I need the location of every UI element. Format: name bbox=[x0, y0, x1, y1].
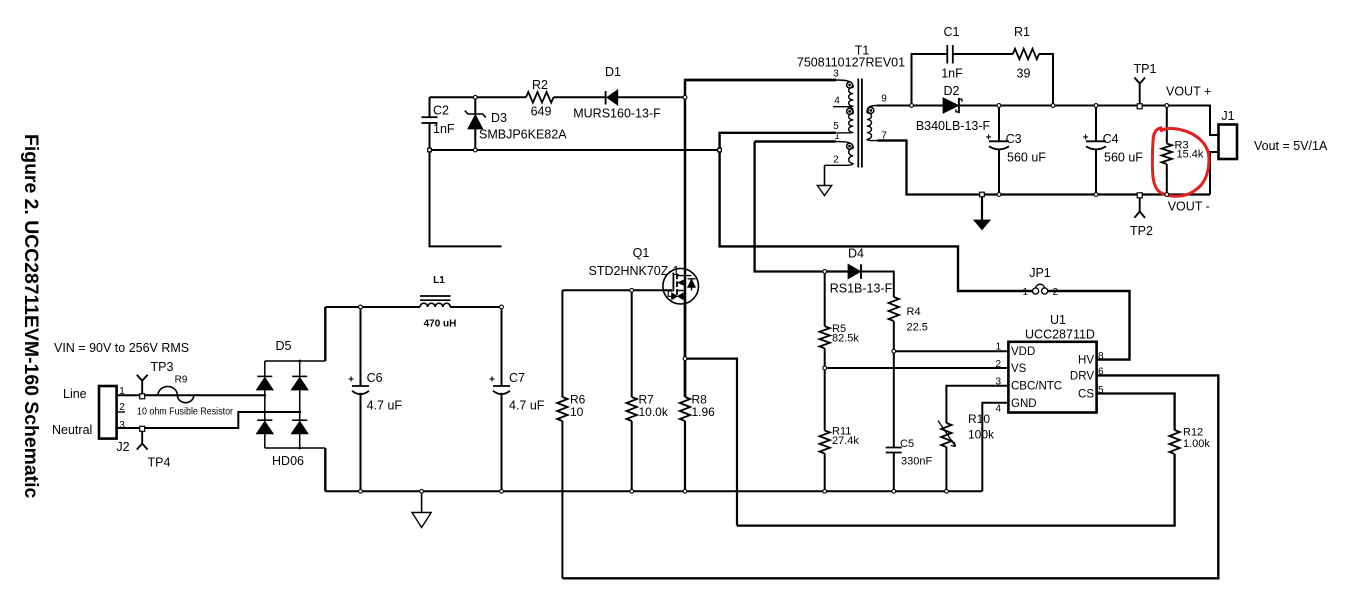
junction D4 R5 bbox=[823, 270, 827, 274]
svg-text:JP1: JP1 bbox=[1029, 266, 1051, 280]
resistor R12 bbox=[1169, 430, 1179, 454]
wire bus link y150 bbox=[430, 149, 720, 151]
svg-text:4.7 uF: 4.7 uF bbox=[509, 399, 545, 413]
zener diode D3 bbox=[474, 97, 476, 114]
svg-text:R1: R1 bbox=[1014, 25, 1030, 39]
svg-text:TP2: TP2 bbox=[1130, 224, 1153, 238]
svg-text:4.7 uF: 4.7 uF bbox=[367, 399, 403, 413]
junction C3 top bbox=[997, 104, 1001, 108]
test point TP2 bbox=[1134, 195, 1145, 218]
wire pin9 node to C1 bbox=[912, 54, 948, 106]
wire GND pin bbox=[982, 403, 1008, 492]
bridge diode lower-right bbox=[291, 421, 308, 434]
svg-text:J1: J1 bbox=[1221, 109, 1234, 123]
svg-text:J2: J2 bbox=[116, 440, 129, 454]
svg-text:Neutral: Neutral bbox=[52, 423, 92, 437]
svg-text:TP3: TP3 bbox=[151, 360, 174, 374]
resistor R10 variable bbox=[941, 423, 951, 447]
T1 pin2 ground bbox=[824, 165, 826, 185]
svg-text:D3: D3 bbox=[491, 111, 507, 125]
wire VS bbox=[825, 367, 1009, 369]
svg-text:C7: C7 bbox=[509, 371, 525, 385]
capacitor C5 bbox=[886, 447, 902, 449]
svg-text:22.5: 22.5 bbox=[907, 322, 928, 334]
svg-text:VDD: VDD bbox=[1011, 346, 1035, 358]
svg-text:D1: D1 bbox=[605, 65, 621, 79]
svg-text:1: 1 bbox=[1022, 287, 1028, 298]
junction rail C6 bbox=[359, 489, 363, 493]
junction rail R10 bbox=[945, 489, 949, 493]
svg-text:+: + bbox=[1083, 133, 1089, 144]
svg-text:U1: U1 bbox=[1050, 313, 1066, 327]
resistor R8 bbox=[680, 397, 690, 421]
bridge diode lower-left bbox=[256, 421, 273, 434]
T1 pin3 stub bbox=[685, 79, 836, 82]
wire JP1 to HV bbox=[1048, 291, 1130, 360]
fusible resistor R9 bbox=[146, 387, 200, 403]
bridge diode upper-left bbox=[256, 377, 273, 390]
svg-text:Vout = 5V/1A: Vout = 5V/1A bbox=[1254, 139, 1328, 153]
ground arrow secondary bbox=[981, 195, 983, 221]
junction VDD R4 bbox=[892, 349, 896, 353]
junction bus link end bbox=[718, 148, 722, 152]
svg-text:39: 39 bbox=[1017, 67, 1031, 81]
svg-text:4: 4 bbox=[834, 96, 840, 107]
svg-text:+: + bbox=[489, 375, 495, 386]
svg-text:2: 2 bbox=[833, 155, 839, 166]
junction C1 left bbox=[910, 104, 914, 108]
T1 winding 3-4 bbox=[836, 80, 853, 87]
ground rail bbox=[325, 490, 982, 492]
mosfet Q1 body bbox=[663, 268, 699, 304]
svg-text:+: + bbox=[348, 375, 354, 386]
svg-text:TP1: TP1 bbox=[1134, 62, 1157, 76]
wire L1 to C7 node bbox=[450, 306, 502, 308]
svg-text:R10: R10 bbox=[968, 412, 990, 426]
wire DRV loop bbox=[562, 375, 1218, 578]
IC U1 box bbox=[1008, 342, 1096, 413]
svg-text:RS1B-13-F: RS1B-13-F bbox=[830, 282, 893, 296]
svg-text:L1: L1 bbox=[433, 275, 445, 286]
svg-text:27.4k: 27.4k bbox=[832, 435, 859, 447]
svg-text:2: 2 bbox=[1053, 287, 1059, 298]
bridge diode upper-right bbox=[291, 377, 308, 390]
svg-text:VOUT +: VOUT + bbox=[1166, 85, 1211, 99]
diode D4 bbox=[848, 264, 861, 279]
svg-text:D4: D4 bbox=[848, 247, 864, 261]
diode D2 bbox=[943, 98, 959, 113]
svg-text:GND: GND bbox=[1011, 398, 1037, 410]
svg-text:649: 649 bbox=[531, 105, 552, 119]
T1 winding 1-2 bbox=[836, 142, 854, 149]
wire VOUT+ rail bbox=[959, 106, 1219, 136]
svg-text:10.0k: 10.0k bbox=[639, 405, 669, 419]
svg-text:330nF: 330nF bbox=[901, 456, 932, 468]
connector J2 bbox=[99, 386, 117, 439]
wire drain vertical with pin3 corner bbox=[685, 80, 836, 397]
svg-text:R12: R12 bbox=[1183, 427, 1203, 439]
wire R12 to source sense bbox=[737, 454, 1175, 526]
inductor L1 bbox=[420, 296, 451, 300]
svg-text:D5: D5 bbox=[276, 339, 292, 353]
junction D3 bottom bbox=[473, 148, 477, 152]
svg-text:C6: C6 bbox=[367, 371, 383, 385]
svg-text:1nF: 1nF bbox=[941, 67, 963, 81]
resistor R2 bbox=[526, 92, 554, 103]
junction D3 top bbox=[473, 95, 477, 99]
test point TP1 bbox=[1134, 78, 1145, 106]
connector J1 bbox=[1219, 125, 1238, 160]
resistor R7 bbox=[631, 290, 633, 397]
wire pin1 to D4 bbox=[755, 142, 848, 272]
svg-text:4: 4 bbox=[995, 404, 1001, 415]
svg-text:470 uH: 470 uH bbox=[424, 319, 457, 330]
wire gate bbox=[562, 289, 672, 291]
svg-text:7508110127REV01: 7508110127REV01 bbox=[797, 55, 905, 69]
svg-text:B340LB-13-F: B340LB-13-F bbox=[916, 119, 991, 133]
junction C6 top bbox=[359, 305, 363, 309]
wire bridge minus output bbox=[324, 448, 326, 491]
svg-text:82.5k: 82.5k bbox=[832, 333, 859, 345]
svg-text:C4: C4 bbox=[1103, 132, 1119, 146]
resistor R1 bbox=[1013, 49, 1039, 60]
svg-text:C2: C2 bbox=[433, 104, 449, 118]
capacitor C6 bbox=[360, 307, 362, 386]
svg-text:D2: D2 bbox=[944, 84, 960, 98]
svg-text:10 ohm Fusible Resistor: 10 ohm Fusible Resistor bbox=[137, 407, 234, 418]
T1 winding 4-5 bbox=[847, 108, 853, 114]
svg-text:VIN = 90V to 256V RMS: VIN = 90V to 256V RMS bbox=[54, 341, 189, 355]
resistor R5 bbox=[824, 272, 826, 327]
svg-text:HD06: HD06 bbox=[272, 454, 304, 468]
svg-text:R4: R4 bbox=[907, 306, 921, 318]
ground symbol near C6 bbox=[421, 491, 423, 512]
junction rail R8 bbox=[683, 489, 687, 493]
wire bus to L1 bbox=[325, 306, 420, 308]
svg-text:UCC28711D: UCC28711D bbox=[1025, 328, 1095, 342]
red marker circle around R3 bbox=[1152, 128, 1209, 196]
svg-text:TP4: TP4 bbox=[148, 456, 171, 470]
resistor R11 bbox=[824, 368, 826, 431]
svg-text:R2: R2 bbox=[532, 78, 548, 92]
junction source sense bbox=[683, 357, 687, 361]
svg-text:3: 3 bbox=[833, 69, 839, 80]
test point TP3 bbox=[137, 375, 148, 395]
svg-text:Figure 2. UCC28711EVM-160 Sche: Figure 2. UCC28711EVM-160 Schematic bbox=[20, 134, 42, 498]
wire R2 to D1 bbox=[554, 96, 606, 98]
resistor R3 bbox=[1166, 106, 1168, 144]
svg-text:VS: VS bbox=[1011, 363, 1027, 375]
T1 secondary winding 9-7 bbox=[877, 104, 911, 106]
jumper JP1 bbox=[1033, 288, 1039, 294]
svg-text:C3: C3 bbox=[1006, 132, 1022, 146]
svg-text:C1: C1 bbox=[944, 25, 960, 39]
wire pin9 to D2 bbox=[877, 105, 944, 107]
junction drain node bbox=[683, 95, 687, 99]
svg-text:Q1: Q1 bbox=[633, 246, 650, 260]
svg-text:560 uF: 560 uF bbox=[1007, 151, 1046, 165]
junction C4 top bbox=[1094, 104, 1098, 108]
svg-text:DRV: DRV bbox=[1070, 371, 1094, 383]
junction rail C5 bbox=[892, 489, 896, 493]
junction R3 bottom bbox=[1165, 193, 1169, 197]
svg-text:1.96: 1.96 bbox=[692, 405, 716, 419]
svg-text:HV: HV bbox=[1078, 355, 1094, 367]
T1 pin2 stub bbox=[825, 164, 846, 166]
wire VOUT- rail bbox=[878, 141, 1211, 195]
wire pin5 to JP1 bbox=[720, 133, 1033, 291]
junction rail C7 bbox=[500, 489, 504, 493]
svg-text:3: 3 bbox=[119, 420, 125, 431]
wire source sense tap bbox=[685, 359, 737, 526]
capacitor C4 bbox=[1095, 106, 1097, 142]
junction rail R11 bbox=[823, 489, 827, 493]
svg-text:Line: Line bbox=[63, 387, 87, 401]
svg-text:MURS160-13-F: MURS160-13-F bbox=[573, 107, 661, 121]
test point TP4 bbox=[137, 428, 148, 450]
wire clamp left vertical bbox=[430, 150, 502, 246]
junction VS R5 bbox=[823, 366, 827, 370]
wire D4 to R4 bbox=[861, 272, 894, 298]
svg-text:STD2HNK70Z-1: STD2HNK70Z-1 bbox=[589, 264, 680, 278]
wire R1 down bbox=[1039, 54, 1053, 106]
svg-text:CS: CS bbox=[1078, 389, 1094, 401]
capacitor C1 bbox=[946, 45, 948, 64]
svg-text:2: 2 bbox=[995, 359, 1001, 370]
junction gnd arrow bbox=[980, 192, 985, 197]
svg-text:10: 10 bbox=[570, 405, 584, 419]
transformer T1 core bbox=[858, 79, 862, 168]
bridge rectifier D5 outline bbox=[265, 361, 326, 448]
junction rail R7 bbox=[630, 489, 634, 493]
junction gate R7 bbox=[630, 288, 634, 292]
wire CS to R12 bbox=[1097, 394, 1175, 431]
junction rail gnd stub bbox=[420, 489, 424, 493]
svg-text:VOUT -: VOUT - bbox=[1168, 200, 1210, 214]
svg-text:+: + bbox=[986, 133, 992, 144]
wire CBC to R10 bbox=[946, 386, 1008, 423]
wire C2 to R2 bbox=[430, 96, 527, 98]
svg-text:1: 1 bbox=[995, 342, 1001, 353]
T1 pin1 stub bbox=[755, 140, 836, 142]
wire bridge plus output bbox=[324, 307, 326, 361]
wire D1 to drain node bbox=[618, 96, 685, 98]
T1 pin7 stub bbox=[878, 139, 907, 141]
svg-text:1nF: 1nF bbox=[433, 122, 455, 136]
resistor R6 bbox=[561, 290, 563, 397]
svg-text:560 uF: 560 uF bbox=[1104, 151, 1143, 165]
wire VDD bbox=[894, 350, 1009, 352]
svg-text:CBC/NTC: CBC/NTC bbox=[1011, 381, 1062, 393]
wire Neutral to bridge bbox=[117, 412, 300, 428]
svg-text:1.00k: 1.00k bbox=[1183, 438, 1210, 450]
resistor R4 bbox=[889, 297, 899, 321]
junction R3 top bbox=[1165, 104, 1169, 108]
svg-text:R9: R9 bbox=[175, 375, 188, 386]
junction R1 right bbox=[1051, 104, 1055, 108]
diode D1 bbox=[607, 90, 618, 105]
svg-text:15.4k: 15.4k bbox=[1177, 149, 1204, 161]
wire C1 to R1 bbox=[953, 53, 1013, 55]
svg-text:9: 9 bbox=[881, 94, 887, 105]
wire source to R8 bbox=[684, 304, 687, 397]
wire Line to bridge bbox=[117, 394, 265, 396]
junction C2 bottom bbox=[428, 148, 432, 152]
svg-text:SMBJP6KE82A: SMBJP6KE82A bbox=[479, 128, 567, 142]
wire J2 pin2 stub bbox=[117, 411, 125, 413]
T1 pin4 dot winding start bbox=[847, 82, 853, 88]
junction C7 top bbox=[500, 305, 504, 309]
wire J1 lower pin bbox=[1210, 152, 1219, 195]
capacitor C3 bbox=[998, 106, 1000, 142]
capacitor C2 bbox=[429, 97, 431, 117]
mosfet Q1 internals bbox=[672, 273, 674, 292]
junction C4 bottom bbox=[1094, 193, 1098, 197]
svg-text:C5: C5 bbox=[900, 438, 914, 450]
capacitor C7 bbox=[501, 307, 503, 386]
junction C3 bottom bbox=[997, 193, 1001, 197]
